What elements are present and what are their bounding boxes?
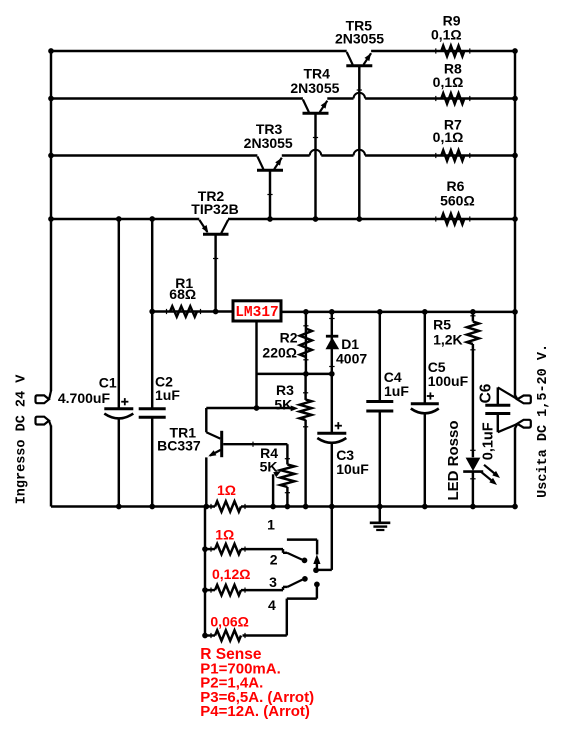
- svg-text:TIP32B: TIP32B: [191, 201, 238, 217]
- svg-text:2: 2: [270, 552, 278, 568]
- svg-text:10uF: 10uF: [336, 461, 369, 477]
- svg-text:560Ω: 560Ω: [440, 193, 475, 209]
- svg-text:4007: 4007: [336, 351, 367, 367]
- svg-text:1uF: 1uF: [384, 383, 409, 399]
- svg-text:2N3055: 2N3055: [244, 135, 293, 151]
- svg-text:0,1Ω: 0,1Ω: [431, 27, 462, 43]
- svg-text:0,06Ω: 0,06Ω: [210, 613, 248, 629]
- svg-text:5K: 5K: [274, 397, 292, 413]
- svg-text:Uscita DC 1,5-20 V.: Uscita DC 1,5-20 V.: [536, 344, 551, 498]
- svg-text:0,1uF: 0,1uF: [480, 422, 496, 460]
- svg-text:2N3055: 2N3055: [290, 80, 339, 96]
- svg-text:0,1Ω: 0,1Ω: [433, 74, 464, 90]
- svg-text:0,1Ω: 0,1Ω: [433, 129, 464, 145]
- svg-text:5K: 5K: [260, 459, 278, 475]
- svg-text:LM317: LM317: [235, 305, 279, 321]
- svg-text:1Ω: 1Ω: [215, 526, 234, 542]
- svg-text:1,2K: 1,2K: [433, 331, 463, 347]
- svg-text:1uF: 1uF: [155, 387, 180, 403]
- svg-text:P4=12A. (Arrot): P4=12A. (Arrot): [200, 703, 310, 720]
- svg-text:R2: R2: [280, 329, 298, 345]
- svg-text:LED Rosso: LED Rosso: [445, 420, 462, 500]
- svg-text:BC337: BC337: [157, 437, 201, 453]
- svg-text:C6: C6: [477, 383, 494, 403]
- svg-text:220Ω: 220Ω: [262, 345, 297, 361]
- svg-text:0,12Ω: 0,12Ω: [212, 566, 250, 582]
- svg-text:R5: R5: [433, 316, 451, 332]
- svg-text:100uF: 100uF: [428, 373, 469, 389]
- svg-text:4: 4: [268, 597, 276, 613]
- svg-text:3: 3: [269, 574, 277, 590]
- svg-text:4.700uF: 4.700uF: [58, 390, 111, 406]
- svg-text:68Ω: 68Ω: [169, 286, 196, 302]
- svg-text:1Ω: 1Ω: [217, 482, 236, 498]
- svg-text:2N3055: 2N3055: [335, 31, 384, 47]
- svg-text:1: 1: [267, 517, 275, 533]
- svg-text:C1: C1: [99, 375, 117, 391]
- svg-text:Ingresso DC 24 V: Ingresso DC 24 V: [15, 374, 30, 505]
